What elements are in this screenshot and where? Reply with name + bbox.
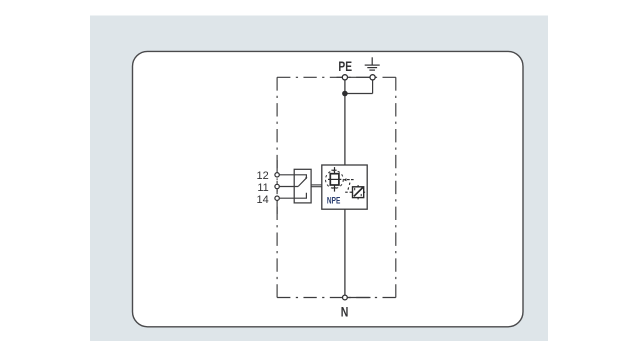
terminal earth bbox=[370, 75, 375, 80]
boundary bridge segment above terminal 12 bbox=[276, 160, 278, 173]
spark gap symbol bbox=[328, 167, 341, 192]
wire PE drop to junction and down to arrester bbox=[344, 77, 346, 165]
wire earth terminal drop bbox=[372, 77, 374, 93]
svg-text:14: 14 bbox=[257, 194, 269, 206]
dashed encapsulation circle bbox=[326, 171, 344, 189]
boundary bridge segment below terminal 14 bbox=[276, 200, 278, 214]
terminal 14 bbox=[275, 196, 279, 200]
svg-text:11: 11 bbox=[257, 182, 268, 194]
arrowhead pointing at spark gap bbox=[343, 178, 346, 181]
junction dot bbox=[342, 91, 348, 97]
wire earth drop to junction bbox=[345, 93, 373, 95]
wire terminal 12 to fixed contact bbox=[279, 175, 306, 179]
wire terminal 11 to switch pivot bbox=[279, 186, 298, 188]
white rounded frame bbox=[133, 51, 524, 326]
terminal N bbox=[343, 295, 348, 300]
terminal 11 bbox=[275, 184, 279, 188]
disconnection device square bbox=[351, 185, 365, 199]
remote signalling contact box bbox=[294, 169, 311, 203]
terminal PE bbox=[342, 75, 347, 80]
mechanical link double line bbox=[311, 185, 322, 187]
svg-text:NPE: NPE bbox=[327, 195, 340, 205]
wire arrester to N terminal bbox=[344, 209, 346, 297]
svg-text:N: N bbox=[341, 305, 349, 320]
switch contact tip bbox=[305, 177, 307, 179]
wire PE terminal to earth terminal bbox=[345, 76, 373, 78]
disconnection device inner ticks bbox=[355, 188, 362, 196]
svg-text:12: 12 bbox=[257, 170, 269, 182]
changeover switch moving contact bbox=[298, 178, 306, 186]
terminal 12 bbox=[275, 173, 279, 177]
earth ground symbol bbox=[365, 57, 380, 70]
device enclosure dash-dot boundary bbox=[277, 77, 396, 297]
boundary tick between terminals 12 and 11 bbox=[276, 178, 278, 180]
svg-text:PE: PE bbox=[338, 58, 352, 74]
NPE arrester box bbox=[322, 165, 367, 209]
disconnector dashed action line with arrowhead bbox=[345, 180, 353, 193]
boundary bridge segment left of PE terminal bbox=[337, 76, 343, 78]
background panel bbox=[90, 16, 548, 342]
wire terminal 14 to fixed contact L bbox=[279, 193, 306, 199]
boundary bridge segment right of N terminal bbox=[347, 297, 370, 299]
boundary tick between terminals 11 and 14 bbox=[276, 190, 278, 192]
disconnection device diagonal arrow bbox=[354, 188, 363, 197]
